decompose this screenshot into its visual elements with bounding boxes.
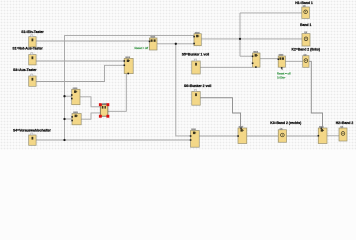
svg-text:K2=Band 2 (links): K2=Band 2 (links) <box>292 47 321 51</box>
svg-text:0.00s+: 0.00s+ <box>277 75 286 79</box>
svg-text:S6=Bunker 2 voll: S6=Bunker 2 voll <box>184 84 211 88</box>
svg-text:S3=Aus-Taster: S3=Aus-Taster <box>13 68 37 72</box>
svg-text:S5=Bunker 1 voll: S5=Bunker 1 voll <box>182 52 209 56</box>
svg-text:Band 1: Band 1 <box>300 23 311 27</box>
svg-text:S1=Not-Aus-Taster: S1=Not-Aus-Taster <box>12 47 43 51</box>
svg-text:K3=Band 2 (rechts): K3=Band 2 (rechts) <box>270 121 301 125</box>
svg-text:Reset = off: Reset = off <box>134 46 148 50</box>
svg-text:S4=Vorauswahlschalter: S4=Vorauswahlschalter <box>13 128 52 132</box>
svg-text:H1=Band 1: H1=Band 1 <box>295 1 313 5</box>
svg-text:H2=Band 2: H2=Band 2 <box>336 121 354 125</box>
svg-text:S1=Ein-Taster: S1=Ein-Taster <box>21 30 44 34</box>
